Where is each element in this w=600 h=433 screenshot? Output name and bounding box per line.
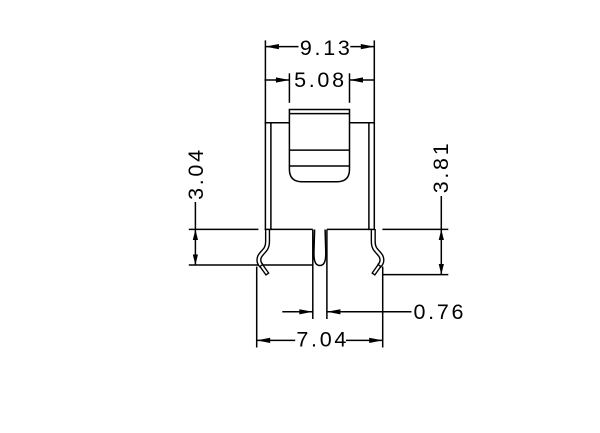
- dim 9.13 left arrowhead: [265, 44, 279, 49]
- dim 7.04 right arrowhead: [369, 338, 383, 343]
- left leg: [259, 229, 268, 275]
- dim 5.08 right extension line: [349, 73, 351, 103]
- dim 3.04 up arrowhead: [193, 229, 198, 240]
- dim 9.13 line left segment: [265, 46, 298, 48]
- fuse clip tab outline: [289, 110, 349, 182]
- body top edge left segment: [265, 122, 290, 124]
- body right wall outer line / 9.13 right extension: [373, 40, 375, 230]
- dim 5.08 left extension line: [288, 73, 290, 103]
- dim 3.81 up arrowhead: [439, 229, 444, 240]
- lower-right reference line y=274.6: [383, 274, 449, 276]
- svg-text:3.81: 3.81: [429, 141, 453, 194]
- dim 5.08 right arrowhead: [350, 77, 364, 82]
- center notch outer right line / 0.76 extension: [326, 230, 328, 320]
- body left wall inner line: [270, 123, 272, 231]
- right leg: [373, 229, 382, 275]
- svg-text:7.04: 7.04: [296, 327, 349, 351]
- dim 9.13 right arrowhead: [361, 44, 375, 49]
- dim 7.04 left arrowhead: [257, 338, 271, 343]
- dim 7.04 line right segment: [346, 339, 383, 341]
- dim 0.76 right tail: [327, 311, 412, 313]
- body top edge right segment: [350, 122, 376, 124]
- dim 3.04 leader line: [194, 202, 196, 229]
- dim 0.76 right arrowhead: [327, 309, 341, 314]
- dim 7.04 right extension line: [382, 267, 384, 348]
- body left wall outer line / 9.13 left extension: [264, 40, 266, 230]
- tab inner line 1: [289, 149, 349, 151]
- dim 3.81 down arrowhead: [439, 264, 444, 275]
- dim 0.76 left tail: [282, 311, 313, 313]
- tab inner top line: [289, 113, 349, 115]
- dim 3.04 down arrowhead: [193, 254, 198, 265]
- dim 7.04 line left segment: [257, 339, 296, 341]
- center notch outer left line / 0.76 extension: [312, 230, 314, 320]
- body bottom seating line segments y=229.4: [189, 228, 259, 230]
- dim 3.04 double arrow shaft: [194, 229, 196, 265]
- tab inner line 2: [289, 165, 349, 167]
- dim 7.04 left extension line: [256, 267, 258, 348]
- dim 5.08 left tail: [265, 79, 290, 81]
- svg-text:3.04: 3.04: [184, 147, 208, 200]
- dim 5.08 right tail: [350, 79, 375, 81]
- body right wall inner line: [368, 123, 370, 231]
- svg-text:0.76: 0.76: [414, 300, 467, 324]
- dim 3.81 double arrow shaft: [440, 229, 442, 274]
- dim 3.81 leader line: [440, 196, 442, 229]
- dim 0.76 left arrowhead: [299, 309, 313, 314]
- svg-text:5.08: 5.08: [294, 68, 347, 92]
- svg-text:9.13: 9.13: [300, 36, 353, 60]
- center notch tapered U: [314, 230, 326, 266]
- wire lower-left reference line y=265.3 (under legs): [189, 264, 313, 266]
- dim 9.13 line right segment: [350, 46, 374, 48]
- dim 5.08 left arrowhead: [276, 77, 290, 82]
